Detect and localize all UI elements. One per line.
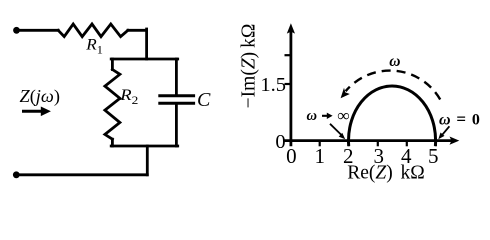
svg-text:0: 0: [275, 131, 285, 153]
svg-text:Re(Z) kΩ: Re(Z) kΩ: [347, 163, 425, 184]
plot x tick labels 0 1 2 3 4 5: [286, 144, 438, 168]
dashed arc arrowhead: [341, 88, 350, 98]
svg-text:R2: R2: [119, 87, 138, 107]
wire node A to capacitor C: [175, 59, 178, 94]
terminal node top-left: [13, 27, 20, 34]
svg-text:Z(jω): Z(jω): [20, 86, 61, 106]
svg-text:−Im(Z) kΩ: −Im(Z) kΩ: [238, 24, 259, 109]
plot x-axis arrowhead: [450, 137, 460, 145]
label omega to infinity: [307, 106, 350, 125]
svg-text:R1: R1: [85, 37, 103, 57]
plot y ticks: [285, 55, 291, 84]
svg-text:1: 1: [314, 144, 325, 168]
annotation arrow omega equals zero: [438, 126, 449, 139]
capacitor C: [160, 96, 194, 104]
wire top-left to R1: [17, 29, 59, 32]
plot x ticks: [320, 141, 436, 147]
dashed direction arc: [346, 71, 441, 100]
plot x-axis: [284, 139, 452, 142]
wire R1 to top corner: [128, 29, 147, 32]
wire R2 to node B: [111, 139, 114, 146]
impedance semicircle: [348, 86, 435, 146]
svg-text:∞: ∞: [337, 106, 349, 125]
resistor R1: [58, 24, 128, 37]
wire capacitor C to node B: [175, 105, 178, 146]
svg-text:1.5: 1.5: [260, 74, 286, 96]
plot y-axis: [289, 30, 292, 146]
svg-text:0: 0: [286, 144, 297, 168]
plot y tick labels 0 and 1.5: [260, 74, 286, 153]
wire node B down to bottom rail: [146, 146, 149, 175]
node A top bus of parallel network: [111, 58, 178, 61]
wire top corner down to node A: [145, 29, 148, 59]
svg-text:ω: ω: [307, 108, 318, 124]
node B bottom bus of parallel network: [111, 145, 178, 148]
annotation arrow omega to infinity: [330, 124, 345, 139]
wire bottom rail: [16, 173, 147, 176]
input arrow: [22, 107, 51, 117]
resistor R2: [105, 70, 120, 140]
svg-text:ω: ω: [389, 53, 400, 70]
svg-text:5: 5: [428, 144, 439, 168]
svg-text:ω = 0: ω = 0: [439, 110, 481, 129]
svg-text:C: C: [197, 89, 211, 111]
wire node A to R2: [111, 59, 114, 70]
terminal node bottom-left: [13, 171, 20, 178]
plot y-axis arrowhead: [287, 23, 295, 33]
